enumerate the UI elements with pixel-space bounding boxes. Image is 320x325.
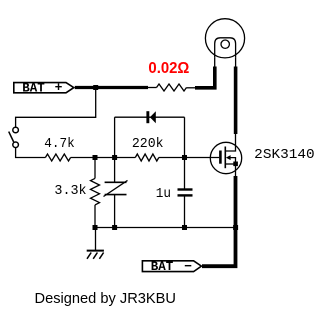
- junction at 1u branch top: [182, 155, 187, 160]
- channel bar: [224, 147, 226, 169]
- wire diode branch right vertical: [184, 117, 186, 157]
- wire MOSFET source down to BAT- (thick): [202, 164, 236, 266]
- wire to ground: [95, 228, 97, 251]
- junction bottom row at 3.3k: [93, 225, 98, 230]
- switch S1: [9, 127, 19, 147]
- capacitor 1u: [178, 158, 193, 228]
- resistor 3.3k (vertical): [91, 158, 100, 228]
- wire 4.7k to 220k: [71, 157, 136, 159]
- junction bottom row at 1u: [182, 225, 187, 230]
- body arrow line: [230, 158, 236, 164]
- wire diode row: [115, 116, 185, 118]
- label BAT -: [142, 259, 201, 274]
- drain connection: [225, 134, 235, 151]
- svg-text:0.02Ω: 0.02Ω: [148, 60, 189, 77]
- wire 220k to MOSFET gate: [159, 157, 219, 159]
- wire diode branch left vertical: [114, 117, 116, 157]
- resistor 220k: [135, 154, 159, 161]
- svg-text:Designed by JR3KBU: Designed by JR3KBU: [35, 290, 177, 307]
- junction at diode/varcap branch top: [112, 155, 117, 160]
- svg-text:BAT: BAT: [151, 260, 174, 274]
- junction at 3.3k top: [93, 155, 98, 160]
- junction bottom row at varcap: [112, 225, 117, 230]
- ground: [87, 251, 104, 259]
- svg-text:2SK3140: 2SK3140: [254, 147, 314, 163]
- label BAT +: [14, 80, 74, 95]
- svg-text:−: −: [184, 259, 192, 274]
- source connection: [225, 163, 235, 165]
- svg-text:+: +: [55, 80, 63, 95]
- diode D1: [146, 111, 155, 123]
- wire lamp right lead to MOSFET drain (thick): [235, 58, 237, 134]
- body arrow head: [226, 155, 231, 160]
- junction at source inside MOSFET: [233, 162, 238, 167]
- resistor 0.02 ohm: [157, 84, 187, 91]
- junction bottom row at source wire: [233, 225, 238, 230]
- svg-text:4.7k: 4.7k: [44, 136, 74, 152]
- variable capacitor / trimmer: [104, 158, 128, 228]
- wire switch to 4.7k: [16, 148, 46, 158]
- gate bar: [219, 151, 222, 164]
- MOSFET Q1 2SK3140: [210, 134, 241, 174]
- junction on BAT+ wire: [93, 85, 98, 90]
- resistor 4.7k: [45, 154, 70, 161]
- wire BAT+ junction down and left to switch: [16, 88, 96, 128]
- svg-text:3.3k: 3.3k: [54, 183, 86, 199]
- wire bottom row: [95, 227, 236, 229]
- wire lamp left lead to 0.02 ohm resistor (thick): [187, 58, 215, 88]
- lamp: [205, 19, 244, 58]
- svg-text:1u: 1u: [156, 186, 171, 202]
- svg-text:BAT: BAT: [22, 81, 45, 95]
- wire BAT+ (thick): [75, 86, 157, 89]
- svg-text:220k: 220k: [132, 136, 164, 152]
